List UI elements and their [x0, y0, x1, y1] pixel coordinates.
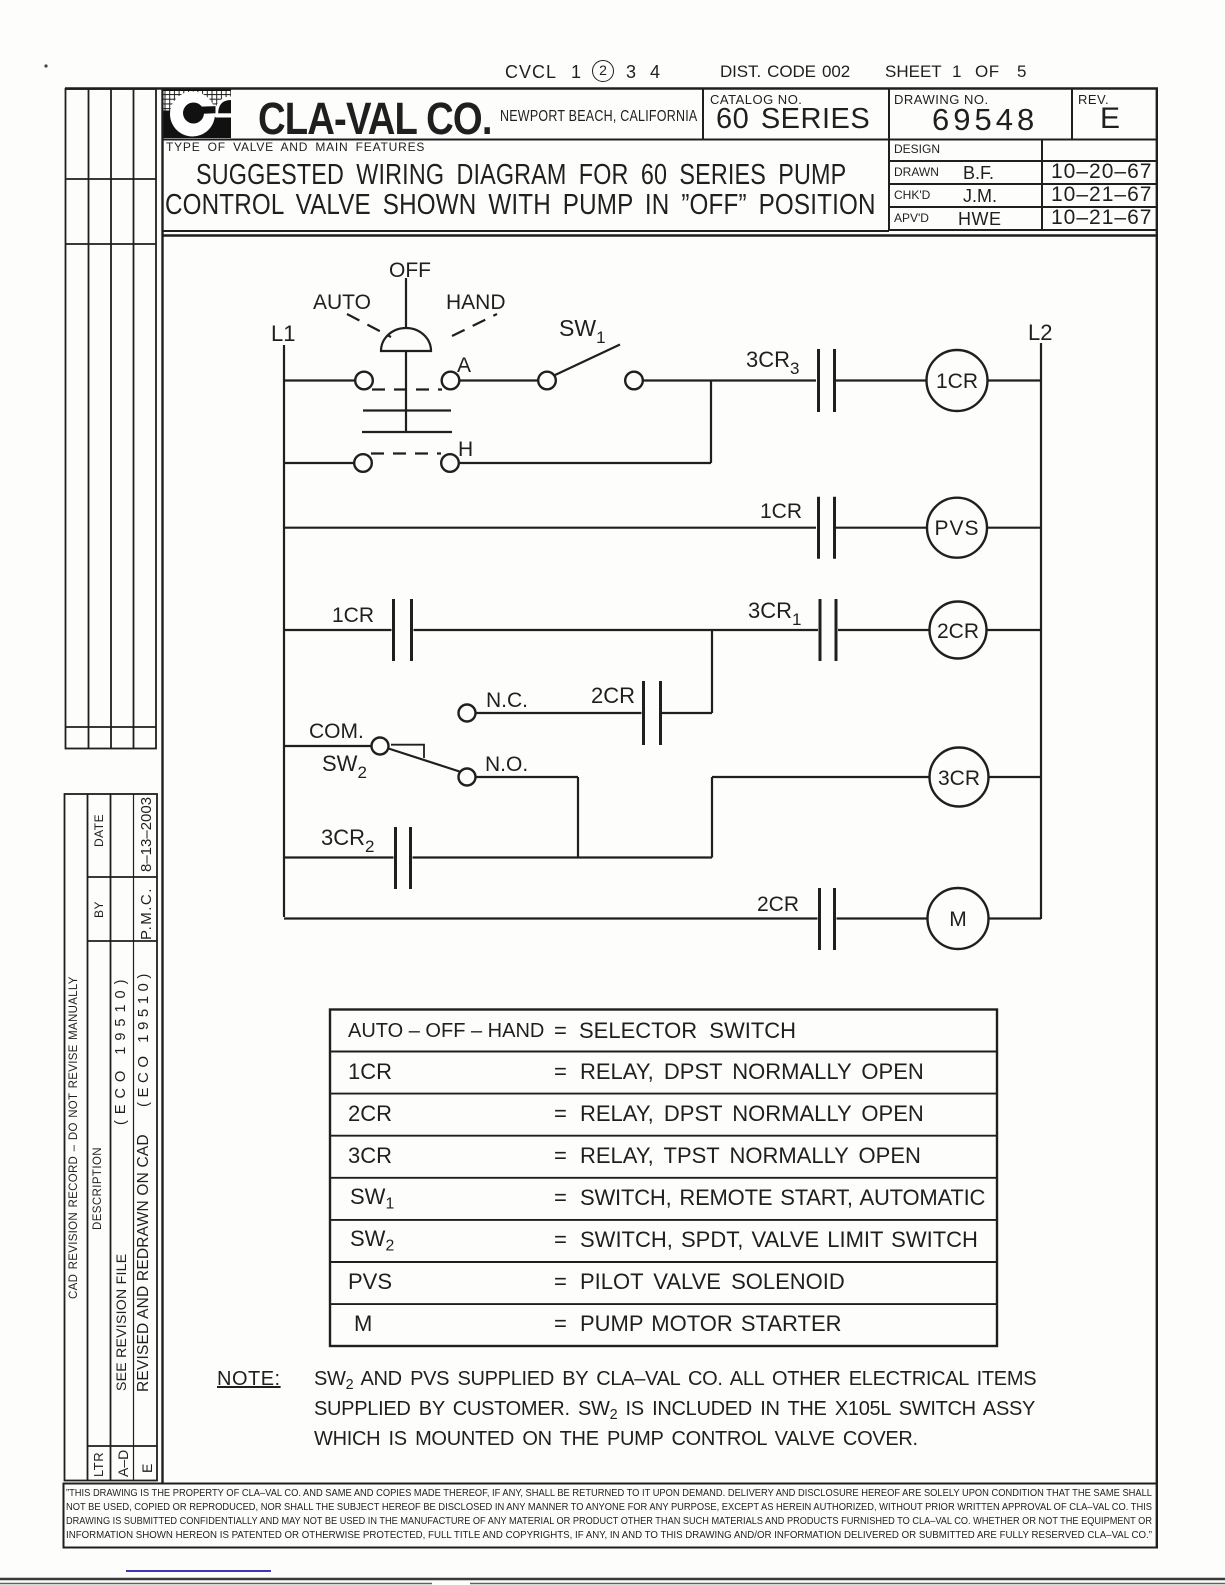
wire contact 1CR to coil PVS	[836, 527, 927, 529]
contact 2CR (on N.C. branch)	[644, 681, 661, 745]
terminal label N.C.	[486, 689, 528, 712]
wire node junction riser x711	[710, 381, 712, 464]
wire coil 3CR to L2	[989, 776, 1042, 778]
contact label 1CR (2CR rung)	[332, 604, 374, 627]
page bottom edge lines	[0, 1579, 1225, 1584]
contact 3CR2 (NO)	[396, 827, 411, 889]
selector label HAND	[446, 291, 506, 314]
coil label PVS	[934, 517, 979, 540]
contact 2CR second pole (NO)	[820, 888, 835, 950]
frame left border of drawing area	[161, 89, 163, 1484]
wire drop x578 to 3CR2 rung	[577, 777, 579, 858]
contact 3CR1 (NO)	[820, 599, 836, 661]
svg-text:AUTO: AUTO	[313, 291, 371, 314]
svg-text:A: A	[457, 354, 471, 377]
selector label AUTO	[313, 291, 371, 314]
wire L1 to contact 2CR (M rung)	[284, 917, 818, 919]
svg-text:PVS: PVS	[934, 517, 979, 540]
legend row 1	[348, 1021, 544, 1041]
contact label 2CR (N.C. branch)	[591, 683, 635, 708]
selector contact H moving bridge (dashed)	[371, 452, 441, 454]
wire contact 2CR to riser	[662, 712, 712, 714]
legend row 7	[348, 1271, 392, 1293]
wire L1 to contact 1CR (PVS rung)	[284, 527, 816, 529]
wire contact 3CR2 to node x712	[413, 856, 713, 858]
coil label 3CR	[938, 767, 980, 790]
wire riser N.C. branch to 2CR rung	[711, 630, 713, 713]
svg-text:N.O.: N.O.	[485, 753, 528, 776]
wire coil 1CR to L2	[988, 379, 1042, 381]
coil label M	[949, 908, 967, 931]
terminal label N.O.	[485, 753, 528, 776]
note line 2	[314, 1399, 1035, 1422]
selector switch crossbar lower	[362, 431, 452, 433]
power rail L2	[1040, 343, 1042, 919]
relay coil 3CR	[930, 748, 989, 807]
contact label 2CR (M rung)	[757, 893, 799, 916]
selector switch crossbar upper	[363, 409, 451, 411]
switch label SW1	[559, 315, 606, 347]
terminal label H	[458, 438, 473, 461]
svg-text:SW1: SW1	[559, 315, 606, 347]
motor starter coil M	[928, 888, 989, 949]
svg-text:L1: L1	[271, 321, 295, 346]
switch SW1 left terminal	[538, 372, 556, 390]
coil label 2CR	[937, 620, 979, 643]
legend row 2	[348, 1061, 392, 1083]
legend row 4	[348, 1145, 392, 1167]
svg-text:COM.: COM.	[309, 720, 364, 743]
note line 1	[314, 1369, 1036, 1392]
wire node x712 to coil 3CR	[712, 776, 930, 778]
legal notice box	[64, 1484, 1158, 1548]
legend row 8	[354, 1313, 372, 1335]
wire SW1 to contact 3CR3 with node at x711	[643, 379, 816, 381]
selector contact A right terminal	[442, 372, 460, 390]
title block boxes	[163, 89, 1157, 232]
selector label OFF	[389, 259, 431, 282]
relay coil 2CR	[930, 602, 987, 659]
wire contact H to node A1	[459, 462, 711, 464]
wire L1 to SW2 common	[284, 745, 372, 747]
legal paragraph	[66, 1489, 1152, 1499]
switch label SW2	[322, 751, 367, 782]
wire L1 to selector contact A	[284, 379, 355, 381]
selector switch SW dome actuator	[381, 328, 431, 351]
selector contact A left terminal	[355, 372, 373, 390]
legend table grid	[330, 1010, 997, 1347]
sheet frame top border	[65, 87, 1158, 90]
svg-text:N.C.: N.C.	[486, 689, 528, 712]
wire contact 3CR1 to coil 2CR	[838, 629, 930, 631]
terminal N.C. of SW2	[459, 705, 476, 722]
svg-text:M: M	[949, 908, 967, 931]
contact label 3CR3	[746, 347, 799, 378]
wire coil 2CR to L2	[987, 629, 1042, 631]
svg-text:2CR: 2CR	[757, 893, 799, 916]
svg-text:2CR: 2CR	[937, 620, 979, 643]
svg-text:3CR2: 3CR2	[321, 825, 374, 856]
wire contact 1CR to contact 3CR1 with node x712	[414, 629, 819, 631]
wire contact 3CR3 to coil 1CR	[836, 379, 927, 381]
contact label 3CR2	[321, 825, 374, 856]
wire N.C. to contact 2CR	[476, 712, 642, 714]
CLA-VAL logo	[164, 90, 232, 139]
wire riser x712 3CR rung to 3CR2 rung	[711, 777, 713, 858]
solenoid coil PVS	[927, 498, 987, 558]
selector contact A moving bridge (dashed)	[372, 388, 442, 390]
wire L1 to contact 1CR (2CR rung)	[284, 629, 392, 631]
power rail L1	[283, 345, 285, 917]
switch SW1 blade	[554, 345, 620, 376]
wire contact A to SW1	[460, 379, 539, 381]
frame right border of drawing area	[1156, 89, 1158, 1548]
svg-text:3CR3: 3CR3	[746, 347, 799, 378]
terminal label COM.	[309, 720, 364, 743]
revision strip upper table	[66, 89, 157, 749]
svg-text:H: H	[458, 438, 473, 461]
svg-text:1CR: 1CR	[332, 604, 374, 627]
circuit text labels	[271, 259, 1052, 931]
contact 3CR3 (NO)	[819, 349, 835, 412]
selector dashed pointer AUTO	[347, 314, 391, 337]
svg-text:1CR: 1CR	[936, 370, 978, 393]
contact 1CR second pole (NO)	[394, 599, 412, 661]
switch SW2 blade	[389, 749, 460, 772]
contact label 1CR (PVS rung)	[760, 500, 802, 523]
selector switch stem lower	[405, 351, 407, 432]
stray dot top left	[44, 64, 47, 67]
blue pen mark	[126, 1570, 271, 1572]
selector contact H left terminal	[354, 454, 372, 472]
svg-text:OFF: OFF	[389, 259, 431, 282]
CAD revision record lower table	[65, 794, 158, 1481]
note heading	[217, 1369, 281, 1389]
svg-text:1CR: 1CR	[760, 500, 802, 523]
svg-text:SW2: SW2	[322, 751, 367, 782]
wire L1 to contact 3CR2	[284, 856, 394, 858]
switch SW1 right terminal	[625, 372, 643, 390]
node label L1	[271, 321, 295, 346]
wire coil M to L2	[989, 917, 1042, 919]
contact label 3CR1	[748, 598, 801, 629]
relay coil 1CR	[927, 350, 988, 411]
switch SW2 blade hook	[391, 745, 424, 758]
svg-text:3CR1: 3CR1	[748, 598, 801, 629]
drawing area top border	[163, 234, 1157, 236]
legend row 5	[350, 1186, 394, 1212]
legend row 3	[348, 1103, 392, 1125]
coil label 1CR	[936, 370, 978, 393]
svg-text:L2: L2	[1028, 320, 1052, 345]
selector switch stem upper	[405, 278, 407, 328]
svg-text:HAND: HAND	[446, 291, 506, 314]
switch SW2 common terminal	[372, 738, 389, 755]
wire contact 2CR to coil M	[837, 917, 928, 919]
wire coil PVS to L2	[987, 527, 1041, 529]
selector contact H right terminal	[441, 454, 459, 472]
svg-text:3CR: 3CR	[938, 767, 980, 790]
contact 1CR (NO)	[819, 497, 835, 559]
legend row 6	[350, 1228, 394, 1254]
note line 3	[314, 1429, 918, 1449]
svg-text:2CR: 2CR	[591, 683, 635, 708]
node label L2	[1028, 320, 1052, 345]
selector dashed pointer HAND	[452, 314, 497, 336]
switch SW2 N.O. terminal	[459, 769, 476, 786]
terminal label A	[457, 354, 471, 377]
wire N.O. to drop x578	[476, 776, 579, 778]
wire L1 to selector contact H	[284, 462, 354, 464]
